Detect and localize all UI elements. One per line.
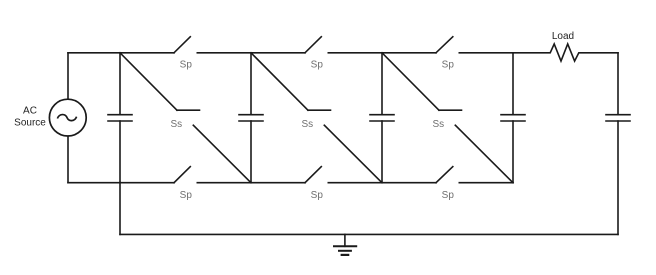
svg-text:Sp: Sp <box>311 59 324 70</box>
capacitor C1 plates <box>108 114 132 116</box>
label AC Source <box>14 106 46 129</box>
svg-text:Ss: Ss <box>432 119 444 130</box>
capacitor C3 plates <box>370 114 394 116</box>
svg-text:Sp: Sp <box>442 190 455 201</box>
capacitor C5 top lead <box>617 53 619 115</box>
resistor Load <box>513 44 618 61</box>
switch Sp5 (bottom, stage 2) <box>251 167 382 183</box>
svg-text:Sp: Sp <box>442 59 455 70</box>
capacitor C4 bottom lead <box>512 121 514 183</box>
switch Ss1 (diagonal, stage 1) <box>120 53 251 183</box>
capacitor C4 plates <box>501 114 525 116</box>
svg-text:Sp: Sp <box>180 59 193 70</box>
wire: ground bus <box>120 233 618 235</box>
capacitor C4 top lead <box>512 53 514 115</box>
svg-text:Ss: Ss <box>170 119 182 130</box>
capacitor C2 top lead <box>250 53 252 115</box>
wire: bottom bus from AC source to node B <box>68 182 120 184</box>
switch Sp3 (top, stage 3) <box>382 37 513 53</box>
svg-text:AC: AC <box>23 106 37 117</box>
ground <box>334 234 356 255</box>
capacitor C3 bottom lead <box>381 121 383 183</box>
capacitor C1 bottom lead <box>119 121 121 183</box>
wire: AC source top lead <box>67 53 69 100</box>
wire: drop from node B to ground bus <box>119 183 121 235</box>
capacitor C3 top lead <box>381 53 383 115</box>
switch Sp1 (top, stage 1) <box>120 37 251 53</box>
capacitor C5 plates <box>606 114 630 116</box>
svg-text:Sp: Sp <box>311 190 324 201</box>
svg-text:Source: Source <box>14 117 46 128</box>
svg-text:Ss: Ss <box>301 119 313 130</box>
switch labels Sp / Ss <box>170 59 454 200</box>
switch Sp2 (top, stage 2) <box>251 37 382 53</box>
switch Ss2 (diagonal, stage 2) <box>251 53 382 183</box>
svg-text:Load: Load <box>552 31 574 42</box>
capacitor C5 bottom lead <box>617 121 619 234</box>
capacitor C2 bottom lead <box>250 121 252 183</box>
AC source V1 <box>49 99 86 136</box>
capacitor C2 plates <box>239 114 263 116</box>
wire: AC source bottom lead <box>67 136 69 183</box>
switch Sp6 (bottom, stage 3) <box>382 167 513 183</box>
svg-text:Sp: Sp <box>180 190 193 201</box>
switch Ss3 (diagonal, stage 3) <box>382 53 513 183</box>
wire: top bus from AC source to node A <box>68 52 120 54</box>
capacitor C1 top lead <box>119 53 121 115</box>
switch Sp4 (bottom, stage 1) <box>120 167 251 183</box>
